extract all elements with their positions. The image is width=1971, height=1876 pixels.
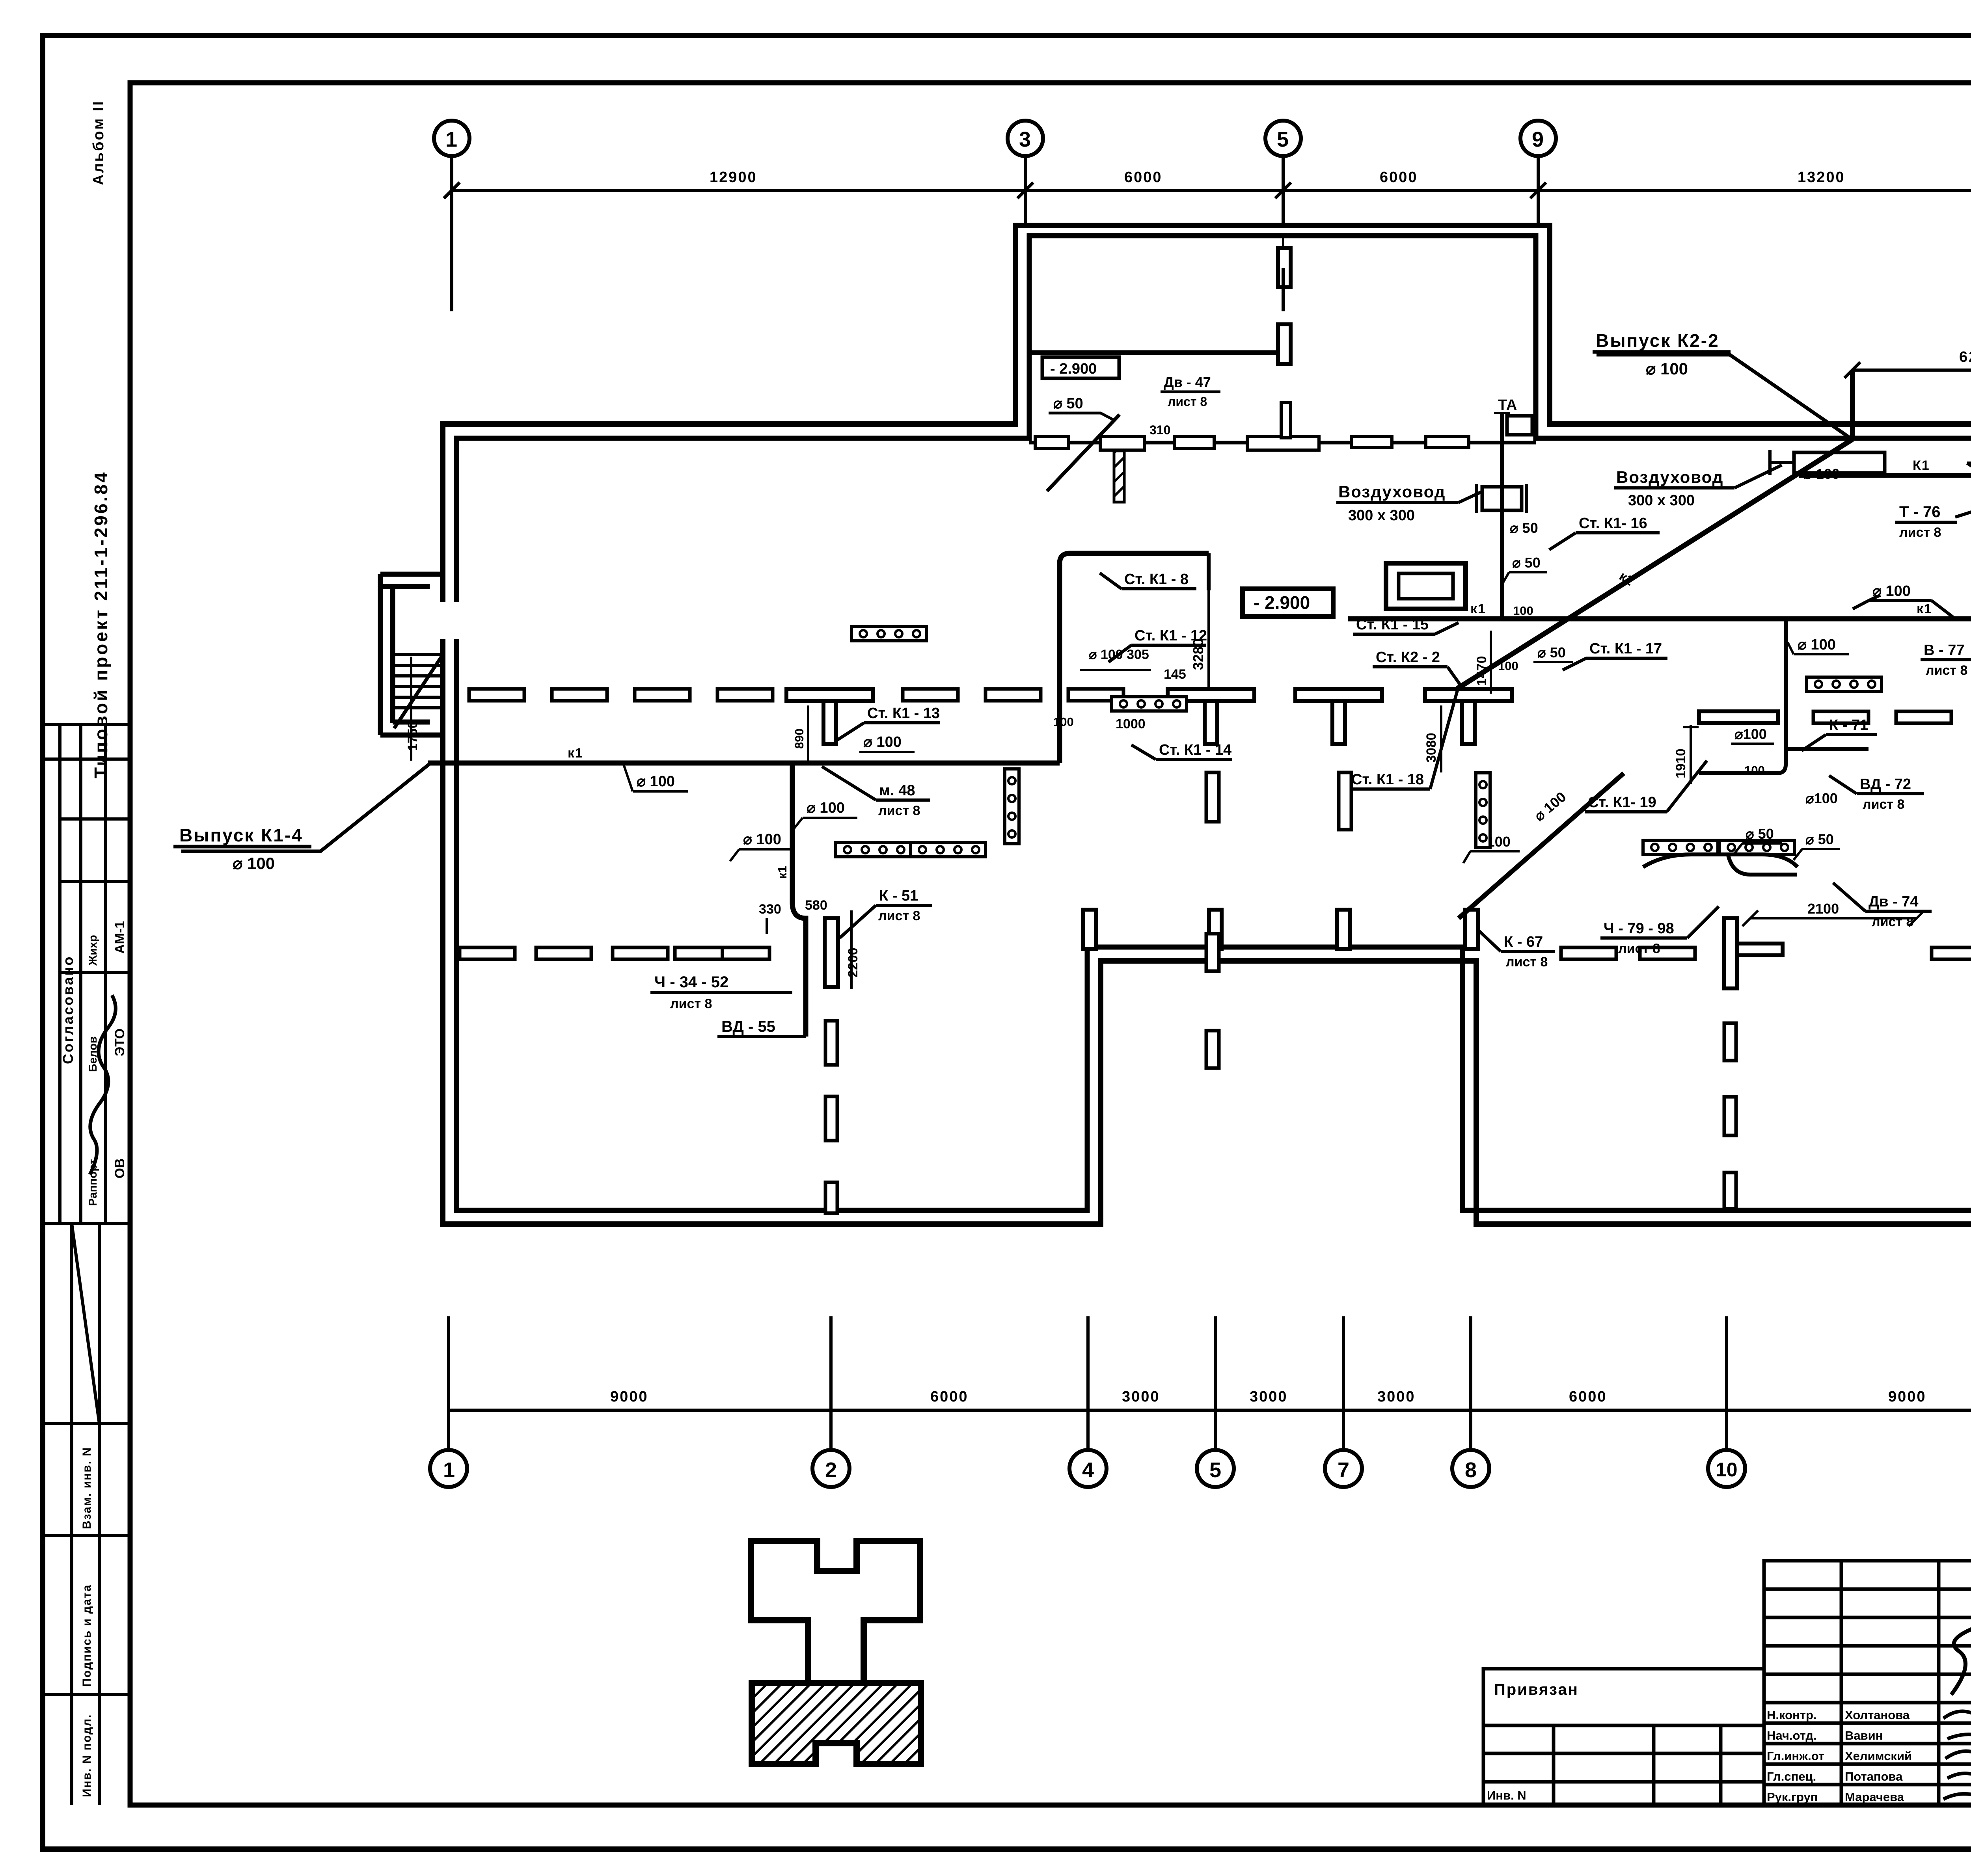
svg-text:Н.контр.: Н.контр. [1767,1708,1817,1722]
axis circle 4 bottom [1069,1450,1107,1487]
svg-text:1910: 1910 [1673,748,1688,778]
svg-text:Дв - 47: Дв - 47 [1164,374,1211,390]
label d50 protrusion [1049,395,1116,421]
svg-text:1: 1 [443,1458,455,1482]
svg-text:Ч - 34 - 52: Ч - 34 - 52 [654,973,728,991]
svg-text:4: 4 [1082,1458,1094,1482]
svg-text:⌀ 50: ⌀ 50 [1746,826,1774,842]
svg-text:⌀ 100: ⌀ 100 [1803,466,1840,482]
svg-text:9000: 9000 [610,1388,648,1405]
dashes row Б left wing [460,947,515,959]
label В-77 лист 8 [1921,621,1971,678]
svg-text:лист 8: лист 8 [878,908,920,923]
label Дв-74 лист 8 [1833,883,1932,929]
pipe diagonal in protrusion [1047,415,1120,491]
svg-text:лист 8: лист 8 [1926,663,1967,678]
svg-text:Ст. К1 - 14: Ст. К1 - 14 [1159,742,1231,758]
perforated strip vertical center right [1476,773,1490,848]
svg-text:к1: к1 [1470,601,1486,616]
svg-text:лист 8: лист 8 [1168,395,1207,409]
svg-text:7: 7 [1338,1458,1349,1482]
top dim ticks [444,179,1971,201]
label Т-76 лист 8 [1895,503,1957,540]
svg-text:⌀ 50: ⌀ 50 [1510,520,1538,536]
svg-text:Ст. К1 - 12: Ст. К1 - 12 [1135,627,1207,644]
pipe K1 right main [1348,616,1971,622]
label d100 at stack [1731,726,1774,744]
perforated strip double [911,843,985,857]
svg-text:580: 580 [805,898,827,913]
equipment double box [1386,563,1466,609]
label d100 under [1805,790,1838,806]
svg-text:ВД - 55: ВД - 55 [721,1018,775,1035]
svg-text:3000: 3000 [1122,1388,1160,1405]
svg-text:⌀100: ⌀100 [1734,726,1767,742]
porch stair treads [393,655,442,708]
svg-text:8: 8 [1465,1458,1477,1482]
key plan outline [751,1541,921,1764]
svg-text:Рук.груп: Рук.груп [1767,1790,1818,1804]
svg-text:Ст. К1 - 8: Ст. К1 - 8 [1124,571,1189,588]
label Ст К1-12 [1108,627,1207,662]
key plan hatched lower band [752,1683,921,1764]
label Ст К1-8 [1100,571,1196,589]
label ВД-72 лист 8 [1829,776,1924,812]
door gap in left wall [437,602,462,639]
T column on В axis x3725 [1425,689,1512,744]
svg-text:⌀ 100: ⌀ 100 [743,831,781,848]
label Ч-34-52 лист 8 [650,973,792,1011]
svg-text:100: 100 [1498,659,1518,673]
svg-text:Выпуск К2-2: Выпуск К2-2 [1596,330,1720,351]
svg-text:Воздуховод: Воздуховод [1338,482,1446,501]
label Ч-79-98 лист 8 [1600,906,1719,956]
svg-text:6000: 6000 [1569,1388,1607,1405]
column stubs lower mid x3075 [1206,934,1219,971]
column crossing Б axis at axis2 [825,918,838,987]
vertical dashed line in right wing axis10 [1724,1023,1736,1209]
svg-text:Подпись и дата: Подпись и дата [80,1584,93,1687]
label Дв-47 лист 8 [1161,374,1220,409]
label Ст К2-2 [1373,649,1461,686]
wire T76 leader bend [1955,497,1971,517]
label Выпуск К1-4 [173,825,311,873]
svg-text:Взам. инв. N: Взам. инв. N [80,1447,93,1529]
T column on Б axis right wing [1724,918,1783,988]
wall outer face outline [443,225,1971,1224]
svg-text:ОВ: ОВ [112,1158,127,1178]
svg-text:890: 890 [792,728,806,749]
label Воздуховод 300x300 left [1336,482,1481,524]
svg-text:5: 5 [1277,128,1289,151]
left margin bottom stamp table [44,1224,130,1805]
svg-text:Выпуск К1-4: Выпуск К1-4 [179,825,303,845]
svg-text:Гл.спец.: Гл.спец. [1767,1770,1816,1783]
svg-text:⌀ 100 305: ⌀ 100 305 [1089,647,1149,662]
wire leader Vypusk K2-2 [1597,355,1852,439]
label m48 лист 8 [822,767,930,818]
bottom dimension line [449,1409,1971,1412]
svg-text:100: 100 [1513,604,1533,618]
axis circle 2 bottom [812,1450,850,1487]
svg-text:Вавин: Вавин [1845,1729,1883,1742]
porch stair arrow diagonal [394,657,442,728]
svg-text:⌀ 50: ⌀ 50 [1805,831,1834,847]
left margin approval table [44,724,130,1224]
label d50 pair left of TA [1510,520,1538,536]
vertical dashed line in protrusion axis5 [1282,268,1285,311]
dashes row В continuing [903,689,958,701]
axis circle 3 top [1008,121,1043,225]
label ВД-55 [717,1018,806,1037]
svg-text:9: 9 [1532,128,1544,151]
svg-text:Жихр: Жихр [87,935,99,966]
svg-text:лист 8: лист 8 [1863,797,1904,812]
svg-text:к1: к1 [568,746,583,761]
svg-text:12900: 12900 [710,169,757,186]
label d50 pair [1734,826,1782,854]
vozduhovod duct right [1770,450,1885,475]
dimension 2100 [1742,901,1924,926]
svg-text:АМ-1: АМ-1 [112,921,127,954]
svg-text:ЭТО: ЭТО [112,1028,127,1056]
perforated strip above K1-13 [851,627,926,641]
axis circle 8 bottom [1452,1450,1489,1487]
svg-text:1750: 1750 [405,721,420,751]
svg-text:Ст. К1- 16: Ст. К1- 16 [1579,515,1647,532]
svg-text:Дв - 74: Дв - 74 [1869,893,1918,910]
label d100 lower left [1463,834,1520,863]
pipe stack drop to lower left room [792,763,806,1037]
central signature grid [1764,1561,1971,1805]
pipe K1 upper run along top wall [1799,475,1971,619]
pipe right wing stack vertical [1699,619,1786,773]
label -2.900 box upper [1042,357,1119,378]
label Ст К1-19 [1585,761,1707,812]
svg-text:100: 100 [1053,715,1074,729]
dimension 305 [1080,647,1151,670]
label d100 on drop stack [793,800,857,830]
svg-text:⌀ 50: ⌀ 50 [1512,555,1541,571]
columns on notch top wall [1083,910,1096,949]
dimension 1470 vertical [1474,631,1491,694]
wall inner face outline [456,236,1971,1210]
svg-text:К1: К1 [1913,458,1930,473]
label Ст К1-17 [1563,640,1667,670]
wire stub at stack K1-8 [1207,553,1211,590]
dashes row Б right wing [1561,947,1616,959]
svg-text:2200: 2200 [846,947,861,977]
label d100 rotated on diagonal [1531,789,1569,824]
svg-text:2100: 2100 [1807,901,1839,917]
svg-text:Инв. N: Инв. N [1487,1789,1526,1802]
T column on В axis right [1699,711,1778,723]
svg-text:300 х 300: 300 х 300 [1348,507,1415,524]
pipe K1 left main [428,761,1060,766]
column stub below B row x3075 [1206,772,1219,822]
label d100 left of stack [730,831,794,861]
label Ст К1-13 [836,705,940,741]
axis circle 5 top [1265,121,1301,252]
label К-67 лист 8 [1478,930,1555,970]
svg-text:9000: 9000 [1888,1388,1926,1405]
svg-text:⌀ 100: ⌀ 100 [233,854,275,873]
label d50 near K1-17 [1533,644,1573,662]
svg-text:Ст. К1 - 17: Ст. К1 - 17 [1589,640,1662,657]
perforated strip below main [836,843,911,857]
svg-text:Ст. К1- 19: Ст. К1- 19 [1588,794,1656,811]
dimension 890 vertical at col [792,705,808,761]
svg-text:к1: к1 [775,866,789,879]
label d100 right of riser [1788,636,1849,654]
porch dimension 1750 [405,657,420,761]
svg-text:Холтанова: Холтанова [1845,1708,1910,1722]
label Ст К1-18 [1348,690,1457,789]
svg-text:В - 77: В - 77 [1924,642,1964,659]
svg-text:К - 71: К - 71 [1829,717,1868,733]
svg-text:⌀ 100: ⌀ 100 [1646,359,1688,378]
duct flange symbol left [1476,484,1526,513]
svg-text:⌀ 50: ⌀ 50 [1053,395,1083,412]
interior wall line in upper protrusion [1029,350,1276,355]
svg-text:лист 8: лист 8 [878,803,920,818]
svg-text:3: 3 [1019,128,1031,151]
svg-text:⌀ 100: ⌀ 100 [1798,636,1836,653]
vertical dashed axis 2 in left wing [825,1021,837,1213]
perforated strip at col B [1112,697,1187,711]
svg-text:лист 8: лист 8 [1872,914,1913,929]
label -2.900 box lower [1243,589,1333,616]
label Ст К1-16 [1549,515,1660,550]
label Ст К1-15 [1353,616,1459,634]
svg-text:2: 2 [825,1458,837,1482]
T column at protrusion base [1029,441,1536,445]
pipe lower branch with 2100 run [1727,839,1797,875]
svg-text:6000: 6000 [1380,169,1418,186]
pipe K2 diagonal lower [1459,773,1624,918]
svg-text:1: 1 [445,128,457,151]
axis circle 10 bottom [1708,1450,1745,1487]
svg-text:Марачева: Марачева [1845,1790,1904,1804]
svg-text:6000: 6000 [1124,169,1162,186]
svg-text:лист 8: лист 8 [670,996,712,1011]
column stub below B row x3410 [1339,772,1351,830]
svg-text:6270: 6270 [1959,349,1971,365]
svg-text:ВД - 72: ВД - 72 [1860,776,1911,793]
T column on В axis [786,689,873,744]
svg-text:Согласовано: Согласовано [60,955,76,1064]
svg-text:3000: 3000 [1377,1388,1416,1405]
pipe TA riser vertical [1500,413,1504,619]
hatched stub column [1114,451,1124,502]
dashes row В left wing [469,689,524,701]
svg-text:10: 10 [1716,1459,1738,1481]
dimension 3280 vertical [1190,590,1209,690]
svg-text:⌀ 100: ⌀ 100 [807,800,845,816]
svg-text:145: 145 [1164,667,1186,682]
svg-text:Воздуховод: Воздуховод [1616,468,1723,486]
svg-text:м. 48: м. 48 [879,782,915,799]
svg-text:330: 330 [759,902,781,917]
porch walls at left entrance [380,574,443,735]
svg-text:К - 67: К - 67 [1504,934,1543,950]
svg-text:1470: 1470 [1474,656,1489,686]
wire leader Vypusk K1-4 [181,764,430,851]
svg-text:⌀ 50: ⌀ 50 [1537,644,1566,661]
label Выпуск К2-2 [1593,330,1731,378]
label Ст К1-14 [1131,742,1232,759]
svg-text:Ст. К2 - 2: Ст. К2 - 2 [1376,649,1440,666]
pipe K2 exit riser [1850,370,1855,439]
perforated strip vertical center [1005,769,1019,844]
attachment table left of title block [1483,1669,1764,1805]
pipe jog at perf strips [1643,854,1798,867]
dashes row В right wing [1813,711,1869,723]
svg-text:Привязан: Привязан [1494,1681,1579,1698]
dimension 1910 vertical [1673,725,1699,784]
svg-text:Инв. N подл.: Инв. N подл. [80,1714,93,1797]
svg-text:Типовой проект 211-1-296.84: Типовой проект 211-1-296.84 [91,471,111,778]
svg-text:лист 8: лист 8 [1618,941,1660,956]
svg-text:⌀ 100: ⌀ 100 [863,734,902,750]
svg-text:лист 8: лист 8 [1899,525,1941,540]
axis circle 1 top [434,121,469,311]
label d100 on K1 main [624,765,688,791]
svg-text:ТА: ТА [1498,397,1517,413]
pipe K2 diagonal main [1457,439,1852,689]
svg-text:Т - 76: Т - 76 [1899,503,1940,521]
svg-text:13200: 13200 [1798,169,1845,186]
svg-text:⌀ 100: ⌀ 100 [637,773,675,790]
label К-51 лист 8 [840,888,932,938]
svg-text:310: 310 [1149,423,1170,437]
label d100 under K1-13 [859,734,915,752]
T column on В axis x3396 [1295,689,1382,744]
svg-text:Ст. К1 - 18: Ст. К1 - 18 [1351,771,1424,788]
big signature over rows [1951,1600,1971,1695]
axis circle 1 bottom [430,1450,467,1487]
axis circle 7 bottom [1325,1450,1362,1487]
dimension 3080 vertical [1424,705,1441,772]
pipe K1 left riser vertical [1060,553,1209,763]
label К-71 [1801,717,1877,751]
pipe branch to VD-72 [1786,747,1869,751]
T column on В axis x3072 [1168,689,1254,744]
perforated strip right wing pair [1643,840,1718,854]
svg-text:Альбом II: Альбом II [90,100,107,185]
approval signatures squiggle [90,995,116,1174]
column in protrusion lower [1278,324,1291,364]
svg-text:3080: 3080 [1424,733,1439,763]
svg-text:5: 5 [1209,1458,1221,1482]
svg-text:⌀100: ⌀100 [1805,790,1838,806]
svg-text:300 х 300: 300 х 300 [1628,492,1695,509]
dimension 6270 line [1844,349,1971,378]
svg-text:к1: к1 [1917,601,1932,616]
top dimension line [452,189,1971,192]
signatures squiggles [1943,1707,1971,1802]
axis circle 9 top [1520,121,1556,225]
svg-text:Хелимский: Хелимский [1845,1749,1912,1763]
axis circle 5 bottom [1197,1450,1234,1487]
svg-text:Ч - 79 - 98: Ч - 79 - 98 [1604,920,1674,937]
svg-text:- 2.900: - 2.900 [1254,592,1310,613]
TA box [1494,397,1532,435]
svg-text:Ст. К1 - 13: Ст. К1 - 13 [867,705,940,722]
svg-text:Потапова: Потапова [1845,1770,1903,1783]
perforated strip small right [1807,677,1882,691]
svg-text:Ст. К1 - 15: Ст. К1 - 15 [1356,616,1429,633]
svg-text:3000: 3000 [1250,1388,1288,1405]
label Воздуховод 300x300 center [1614,465,1782,509]
svg-text:6000: 6000 [930,1388,969,1405]
label d100 at 4640 [1803,466,1840,482]
svg-text:- 2.900: - 2.900 [1050,361,1097,377]
svg-text:Гл.инж.от: Гл.инж.от [1767,1749,1824,1763]
column in protrusion mid [1278,248,1291,287]
svg-text:Нач.отд.: Нач.отд. [1767,1729,1817,1742]
label d100 with left arrow [1853,583,1955,619]
svg-text:лист 8: лист 8 [1506,955,1548,970]
label d40 dlya varianta [1967,443,1971,493]
svg-text:К - 51: К - 51 [879,888,918,904]
svg-text:100: 100 [1744,763,1765,777]
svg-text:1000: 1000 [1116,717,1146,731]
